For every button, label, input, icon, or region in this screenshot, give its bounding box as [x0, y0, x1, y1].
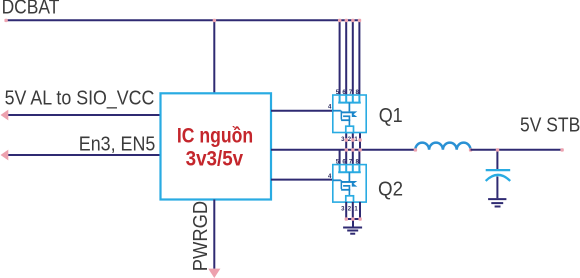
Q2 drain drop — [348, 172, 350, 181]
wire DCBAT feed to IC — [213, 20, 215, 93]
Q1 source pad square — [346, 126, 354, 132]
ground Q2 — [343, 228, 362, 234]
wire SIO_VCC — [8, 114, 161, 116]
wire En3 EN5 — [8, 154, 161, 156]
svg-text:Q2: Q2 — [378, 177, 403, 200]
transistor Q1 — [328, 90, 366, 143]
Q1 drain ladder — [338, 96, 361, 103]
wire mid rail IC to inductor — [271, 149, 415, 151]
wire Q1 source pins to mid rail — [346, 133, 360, 150]
Q1 package box — [333, 95, 366, 133]
wire mid rail to Q2 pins 5-8 — [340, 150, 360, 165]
arrow down PWRGD — [208, 269, 220, 278]
ground C1 — [488, 199, 506, 206]
Q2 drain ladder — [338, 165, 361, 172]
wire PWRGD — [213, 200, 215, 269]
wire cap bottom stem — [496, 177, 498, 199]
wire IC to Q1 gate (pin 4) — [271, 110, 333, 112]
arrow left SIO_VCC — [1, 110, 9, 121]
node dot inductor left — [414, 148, 417, 151]
wire cap top stem — [496, 150, 498, 169]
Q2 mosfet glyph — [333, 179, 358, 195]
svg-text:PWRGD: PWRGD — [189, 201, 212, 272]
node dots on mid rail — [345, 148, 362, 151]
svg-text:5V AL to SIO_VCC: 5V AL to SIO_VCC — [5, 87, 155, 110]
svg-text:Q1: Q1 — [379, 104, 403, 127]
IC U1 box — [161, 93, 272, 199]
pad dots Q1 bottom pin ends — [345, 138, 362, 141]
svg-text:IC nguồn: IC nguồn — [177, 125, 253, 148]
svg-text:DCBAT: DCBAT — [2, 0, 60, 19]
wire drops rail to Q1 pins 5-8 — [340, 20, 360, 95]
node dot DCBAT left end — [4, 19, 7, 22]
wire Q2 to ground — [352, 219, 354, 227]
wire Q2 source pins to junction bar — [346, 202, 360, 219]
svg-text:5V STB: 5V STB — [520, 114, 580, 137]
Q2 source pad square — [346, 196, 354, 202]
node dot inductor right — [469, 148, 472, 151]
node dots Q2 junction bar — [345, 217, 362, 220]
node dots rail/Q1 drops — [338, 19, 361, 22]
Q1 drain drop — [348, 103, 350, 112]
wire DCBAT rail — [6, 19, 359, 21]
wire IC to Q2 gate (pin 4) — [271, 179, 333, 181]
arrow left En3 EN5 — [1, 150, 9, 161]
wire Q2 junction bar — [346, 218, 360, 220]
inductor L1 — [415, 143, 470, 150]
node dot junction to IC — [213, 19, 216, 22]
wire inductor to 5V STB — [471, 149, 563, 151]
Q1 mosfet glyph — [333, 110, 358, 126]
svg-text:3v3/5v: 3v3/5v — [186, 148, 244, 171]
node dot cap junction — [496, 148, 499, 151]
transistor Q2 — [328, 159, 366, 212]
capacitor C1 — [486, 170, 511, 181]
Q2 package box — [333, 165, 366, 203]
svg-text:En3, EN5: En3, EN5 — [79, 132, 156, 155]
node dot 5V STB end — [560, 148, 563, 151]
